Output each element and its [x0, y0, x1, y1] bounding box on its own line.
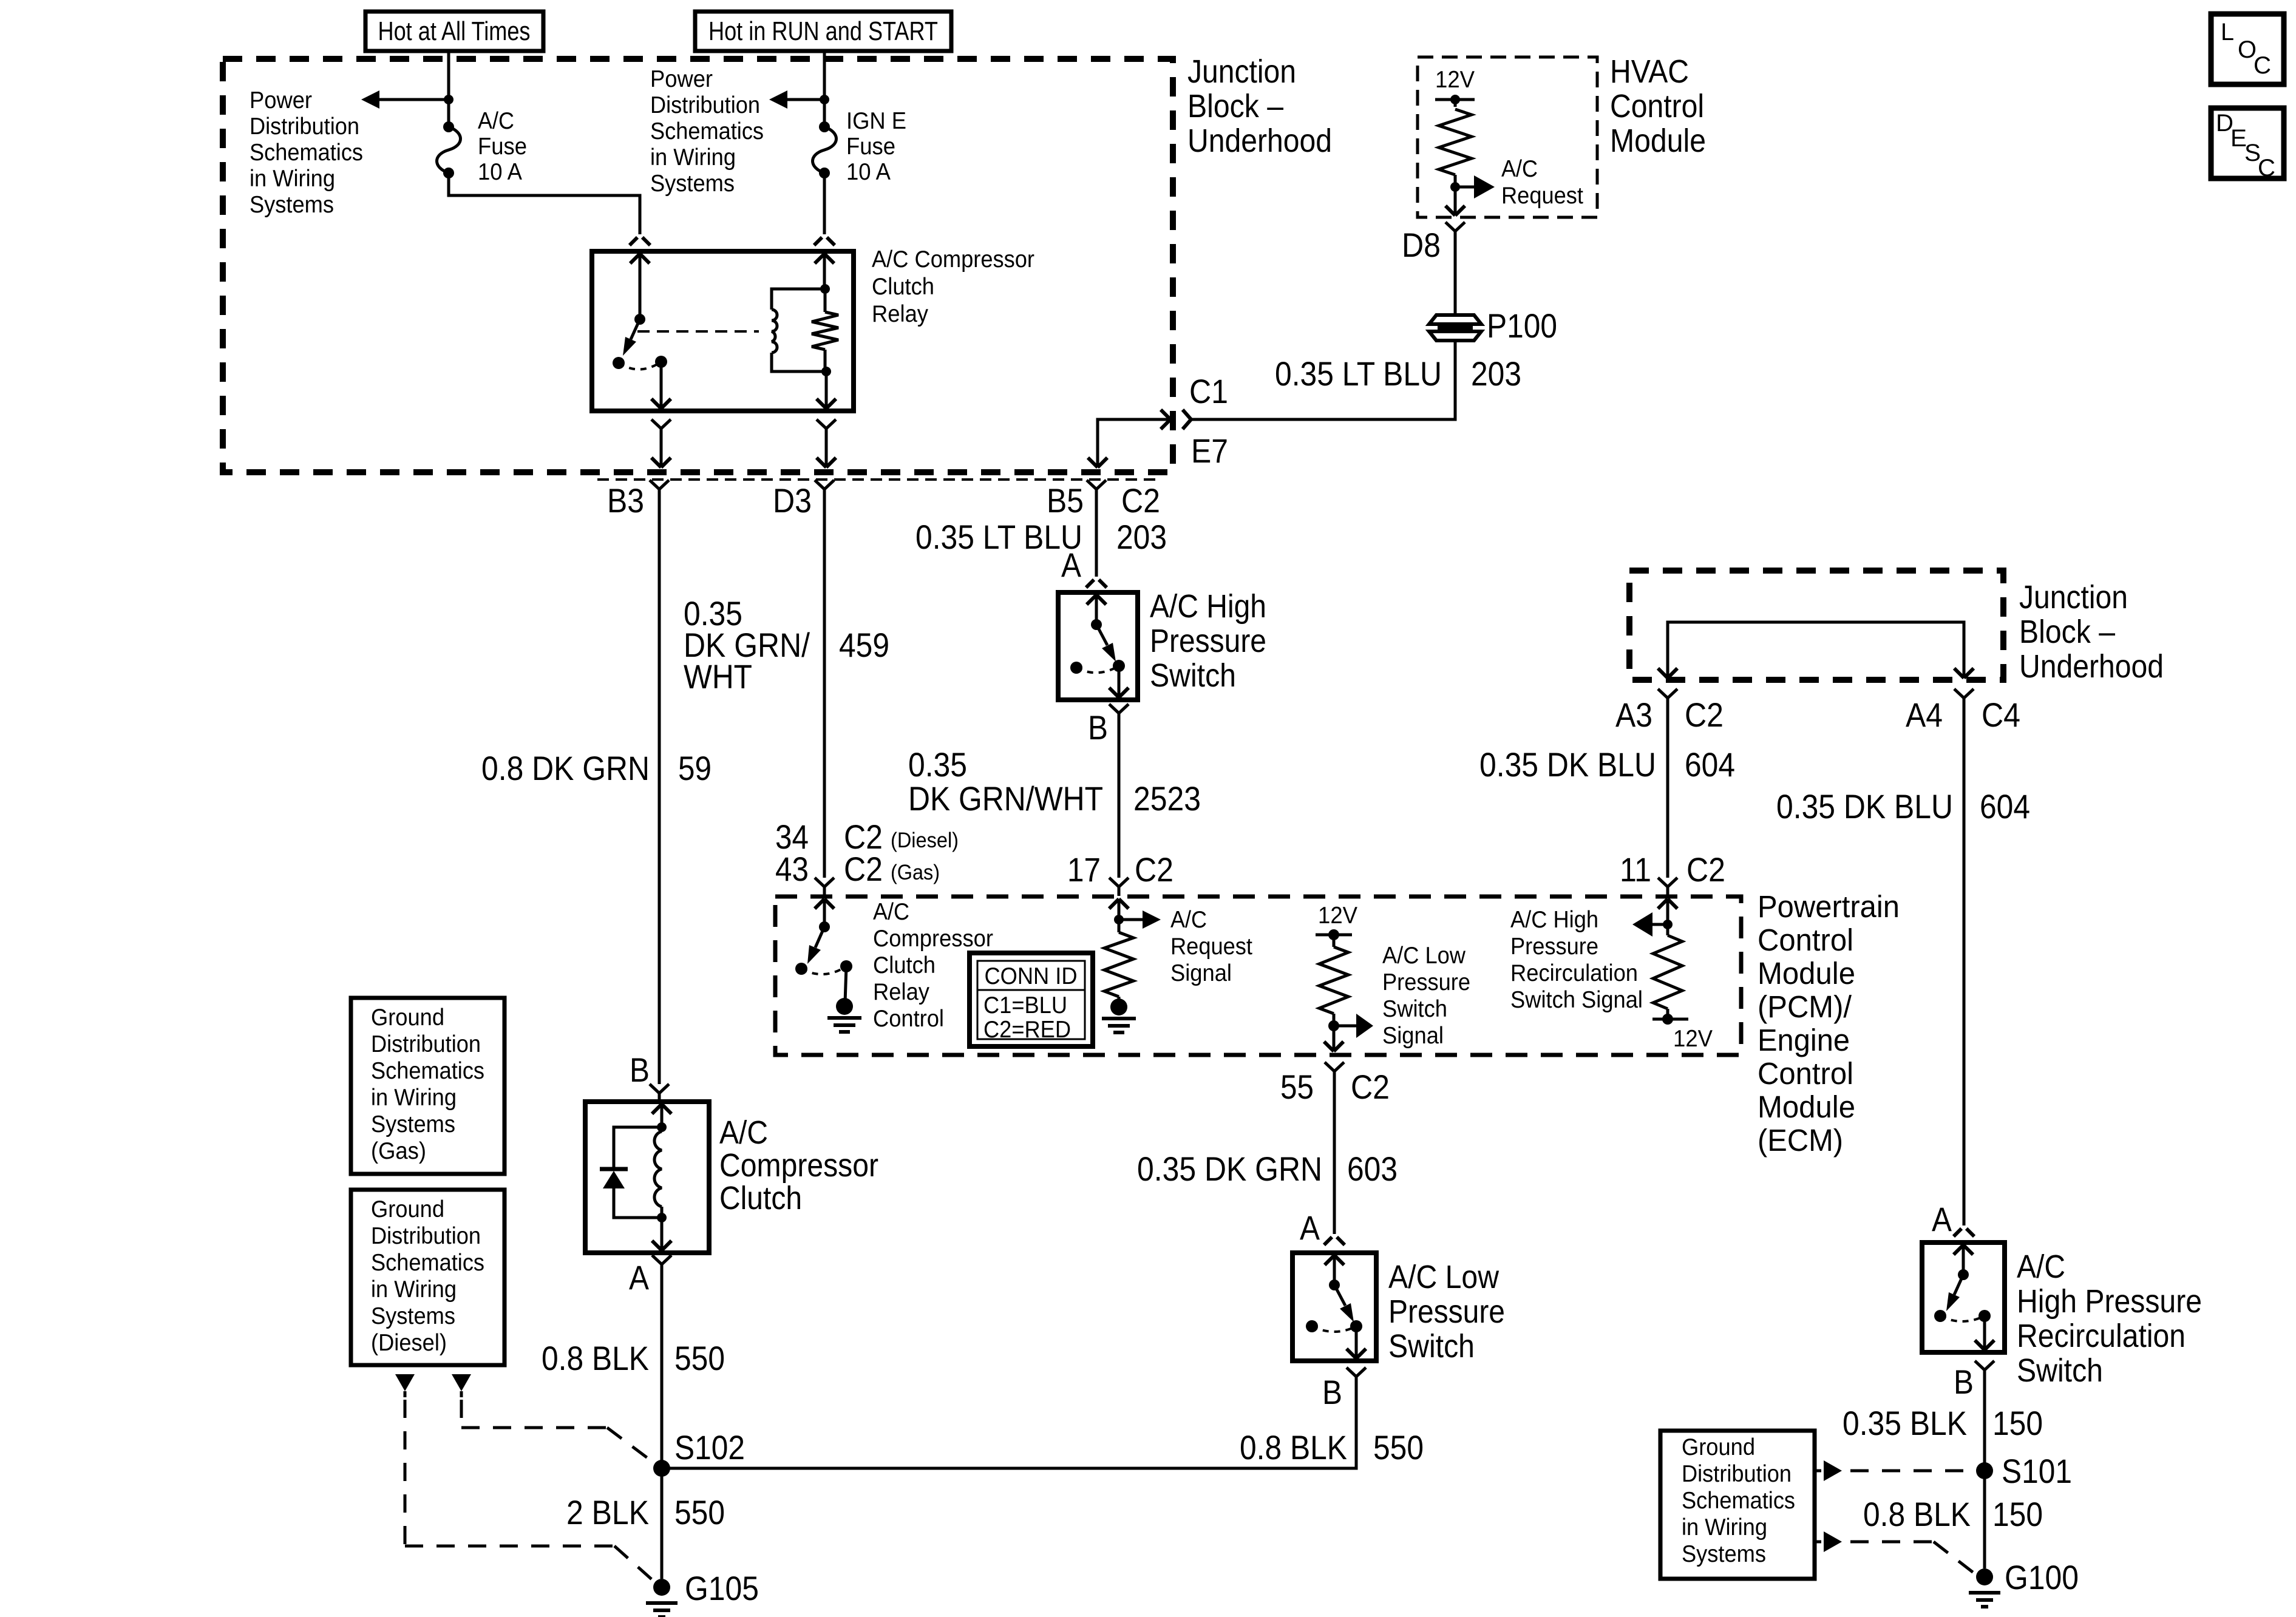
svg-text:Control: Control	[1758, 1056, 1853, 1091]
header box: Hot at All Times	[365, 12, 543, 51]
svg-text:Block –: Block –	[2019, 614, 2115, 650]
svg-text:550: 550	[674, 1493, 725, 1531]
label: circuit number 2523	[1133, 779, 1201, 818]
label: circuit number 150 (lower)	[1992, 1495, 2043, 1533]
diode: clutch suppression diode	[600, 1127, 662, 1218]
switch: recirc switch armature	[1934, 1269, 1991, 1322]
arrow: A/C High Pressure Recirculation Switch Signal (left)	[1632, 912, 1668, 937]
svg-text:A/C: A/C	[873, 899, 909, 925]
svg-text:603: 603	[1347, 1150, 1398, 1188]
label: pin C2 at 11	[1686, 850, 1725, 889]
label: pin C2 (diesel row)	[844, 818, 883, 856]
resistor: relay coil suppression resistor	[812, 289, 838, 371]
switch: HP switch armature	[1070, 619, 1125, 674]
label: pin A (compressor clutch)	[629, 1258, 650, 1297]
svg-text:C2: C2	[1686, 850, 1725, 889]
svg-text:10 A: 10 A	[478, 159, 522, 185]
svg-text:Pressure: Pressure	[1382, 969, 1470, 995]
pin arrow: relay pin 30 (top-left, up)	[630, 254, 650, 319]
svg-text:Schematics: Schematics	[250, 140, 363, 166]
connector: inline male at HP switch pin A	[1086, 580, 1107, 588]
label: circuit 0.8 DK GRN	[481, 749, 650, 787]
connector line: junction block bulkhead (thin dashed)	[597, 478, 1160, 481]
label: circuit number 604 (A3)	[1685, 745, 1735, 784]
svg-text:C: C	[2258, 155, 2275, 181]
wire: A3 to PCM pin 11	[1666, 707, 1669, 878]
svg-text:Pressure: Pressure	[1388, 1293, 1505, 1330]
supply: PCM 12V rail (low pressure sense)	[1316, 903, 1357, 947]
dashed link: ground reference to S102	[461, 1400, 656, 1464]
wire: recirc switch B to S101 to G100	[1983, 1379, 1986, 1568]
wire: relay coil top bus	[772, 284, 830, 310]
svg-text:B3: B3	[607, 481, 644, 520]
svg-text:Junction: Junction	[2019, 579, 2128, 615]
label: circuit 0.35 DK GRN	[1137, 1150, 1322, 1188]
svg-text:HVAC: HVAC	[1610, 53, 1689, 90]
label: pin A (recirc switch)	[1932, 1200, 1952, 1238]
dashed link: ground reference to S101	[1850, 1470, 1974, 1473]
svg-text:Hot in RUN and START: Hot in RUN and START	[708, 16, 938, 46]
svg-text:Distribution: Distribution	[1682, 1461, 1792, 1487]
node: low pressure signal tap	[1328, 1014, 1339, 1031]
reference box: Ground Distribution Schematics in Wiring Systems (Diesel)	[351, 1190, 504, 1365]
pin arrow: relay pin 87 (bottom-left, down)	[651, 362, 671, 408]
svg-text:Switch Signal: Switch Signal	[1510, 987, 1643, 1013]
supply: PCM 12V rail (recirc sense)	[1652, 1014, 1713, 1052]
svg-text:B: B	[630, 1051, 650, 1089]
svg-text:Hot at All Times: Hot at All Times	[378, 16, 531, 46]
label: pin 17	[1067, 850, 1101, 889]
svg-text:C2: C2	[1351, 1068, 1390, 1106]
svg-text:0.35: 0.35	[908, 745, 967, 784]
svg-text:Relay: Relay	[873, 979, 929, 1005]
svg-text:Systems: Systems	[371, 1111, 455, 1137]
svg-text:Recirculation: Recirculation	[2017, 1318, 2186, 1354]
svg-text:Module: Module	[1758, 956, 1855, 991]
fuse: A/C Fuse 10 A	[437, 121, 461, 178]
label: pin D8	[1402, 226, 1441, 264]
svg-text:Schematics: Schematics	[1682, 1488, 1795, 1514]
ground: G100	[1969, 1568, 2000, 1607]
svg-text:Schematics: Schematics	[371, 1058, 484, 1084]
label: G100	[2005, 1558, 2079, 1596]
svg-text:604: 604	[1685, 745, 1735, 784]
label: pin 11	[1620, 850, 1651, 889]
svg-text:59: 59	[678, 749, 712, 787]
svg-text:C2: C2	[1685, 696, 1724, 734]
label: pin B3	[607, 481, 644, 520]
label: (Gas)	[891, 861, 940, 884]
label: Junction Block - Underhood (right)	[2019, 579, 2164, 685]
module: HVAC Control Module dashed box	[1418, 57, 1597, 217]
label: A/C Request Signal	[1170, 907, 1252, 986]
label: S102	[674, 1428, 745, 1466]
svg-text:Switch: Switch	[1382, 996, 1447, 1022]
svg-text:C: C	[2254, 52, 2271, 79]
connector: female below relay pin 85	[817, 419, 836, 467]
label: circuit 0.35 DK BLU (A3)	[1479, 745, 1656, 784]
resistor: PCM pin 17 pull-down	[1104, 920, 1133, 1003]
svg-text:0.8 BLK: 0.8 BLK	[1240, 1428, 1347, 1466]
svg-text:Power: Power	[650, 66, 713, 92]
arrow: ground reference tap (to G105)	[395, 1374, 415, 1397]
connector: female below recirc switch pin B	[1975, 1361, 1994, 1379]
pin arrow: PCM pin 55 (down)	[1324, 1026, 1343, 1051]
svg-text:in Wiring: in Wiring	[250, 166, 335, 192]
label: G105	[685, 1569, 759, 1607]
label: A/C High Pressure Recirculation Switch	[2017, 1249, 2202, 1389]
reference box: Ground Distribution Schematics in Wiring Systems (right)	[1660, 1431, 1815, 1579]
label: pin B5	[1047, 481, 1084, 520]
svg-text:550: 550	[674, 1339, 725, 1377]
grommet: P100 pass-through	[1429, 315, 1481, 341]
connector: female below relay pin 87	[651, 419, 671, 467]
label: pin B (compressor clutch)	[630, 1051, 650, 1089]
svg-text:Power: Power	[250, 87, 312, 114]
node: A/C request signal tap	[1114, 915, 1124, 924]
svg-text:203: 203	[1471, 354, 1521, 393]
svg-text:Underhood: Underhood	[2019, 648, 2164, 685]
svg-text:C1=BLU: C1=BLU	[983, 992, 1067, 1019]
node: HVAC A/C request tap	[1450, 175, 1460, 192]
label: P100	[1487, 307, 1557, 345]
dashed link: relay coil actuates switch	[637, 330, 759, 333]
arrow: ground reference tap (to G100)	[1815, 1531, 1842, 1552]
svg-text:150: 150	[1992, 1404, 2043, 1442]
svg-text:A/C Low: A/C Low	[1388, 1259, 1500, 1295]
svg-text:Recirculation: Recirculation	[1510, 960, 1638, 986]
pin arrow: compressor clutch pin B (up)	[652, 1104, 671, 1127]
ground: PCM internal ground (pin 43 driver)	[827, 998, 861, 1032]
svg-text:Signal: Signal	[1170, 960, 1232, 986]
svg-text:in Wiring: in Wiring	[1682, 1514, 1767, 1541]
svg-text:A: A	[1932, 1200, 1952, 1238]
label: pin C2 at B5	[1121, 481, 1160, 520]
svg-text:Schematics: Schematics	[371, 1250, 484, 1276]
svg-text:E7: E7	[1191, 432, 1228, 470]
reference box: Ground Distribution Schematics in Wiring Systems (Gas)	[351, 998, 504, 1174]
label: pin C1	[1189, 372, 1228, 410]
svg-text:Control: Control	[873, 1006, 944, 1032]
pin arrow: low pressure switch pin B (down)	[1347, 1326, 1366, 1358]
connector: female above compressor clutch	[650, 1084, 669, 1102]
connector: female below PCM pin 55	[1325, 1062, 1344, 1080]
label: circuit 0.35 LT BLU (B5)	[915, 518, 1082, 556]
relay: A/C Compressor Clutch Relay box	[592, 251, 854, 411]
pin arrow: relay pin 85 (bottom-right, down)	[817, 371, 836, 408]
connector: female below low pressure switch pin B	[1347, 1368, 1366, 1386]
wire: A4 to A/C high pressure recirculation switch	[1963, 707, 1966, 1225]
wire: battery feed from Hot at All Times box to A/C fuse	[447, 51, 450, 127]
junction block - underhood dashed enclosure (left)	[223, 59, 1173, 472]
label: Junction Block - Underhood (left)	[1187, 53, 1332, 159]
svg-text:A: A	[629, 1258, 650, 1297]
switch box: A/C High Pressure Switch	[1058, 592, 1138, 700]
label: Power Distribution Schematics in Wiring Systems (right)	[650, 66, 764, 197]
wire: HP switch B to PCM pin 17	[1118, 722, 1121, 878]
node: splice to power distribution (right)	[820, 95, 829, 104]
wire: A/C fuse output to relay pin (left)	[449, 173, 640, 234]
svg-text:Block –: Block –	[1187, 88, 1283, 124]
label: pin A (low pressure switch)	[1300, 1209, 1320, 1247]
svg-text:A3: A3	[1615, 696, 1652, 734]
connector: female below compressor clutch pin A	[652, 1255, 671, 1273]
label: circuit 0.35 DK BLU (A4)	[1776, 787, 1953, 825]
label: Power Distribution Schematics in Wiring Systems (left)	[250, 87, 363, 218]
svg-text:Distribution: Distribution	[650, 92, 760, 118]
pin arrow: recirc switch pin B (down)	[1975, 1316, 1994, 1350]
label: circuit number 550 (low pressure)	[1373, 1428, 1424, 1466]
svg-text:A/C: A/C	[478, 108, 514, 134]
svg-text:in Wiring: in Wiring	[650, 144, 736, 171]
svg-text:604: 604	[1980, 787, 2030, 825]
svg-text:Fuse: Fuse	[478, 134, 527, 160]
svg-text:Compressor: Compressor	[719, 1147, 878, 1184]
svg-text:0.35 BLK: 0.35 BLK	[1843, 1404, 1967, 1442]
pin arrow: relay pin 86 (top-right, up)	[815, 254, 834, 289]
label: pin 34	[775, 818, 809, 856]
svg-text:Clutch: Clutch	[872, 274, 934, 300]
svg-text:Systems: Systems	[371, 1303, 455, 1329]
label: circuit number 59	[678, 749, 712, 787]
svg-text:Distribution: Distribution	[371, 1031, 481, 1057]
svg-text:A/C High: A/C High	[1150, 588, 1266, 625]
node: high pressure recirc signal tap	[1663, 920, 1673, 929]
label: pin A (high pressure switch)	[1061, 546, 1082, 584]
svg-text:0.35 LT BLU: 0.35 LT BLU	[915, 518, 1082, 556]
svg-text:459: 459	[839, 626, 889, 664]
svg-text:Systems: Systems	[1682, 1541, 1766, 1567]
svg-text:C2: C2	[1135, 850, 1173, 889]
node: clutch coil bottom	[657, 1213, 667, 1222]
label: pin 55	[1280, 1068, 1314, 1106]
arrow: A/C Request Signal (right)	[1119, 910, 1161, 929]
label: circuit number 550 (clutch)	[674, 1339, 725, 1377]
label: A/C High Pressure Recirculation Switch Signal	[1510, 907, 1643, 1013]
svg-text:G105: G105	[685, 1569, 759, 1607]
svg-text:2523: 2523	[1133, 779, 1201, 818]
svg-text:A/C: A/C	[2017, 1249, 2065, 1285]
ground: G105	[646, 1579, 678, 1617]
svg-text:43: 43	[775, 850, 809, 888]
pin arrow: compressor clutch pin A (down)	[652, 1218, 671, 1250]
node: clutch coil top	[657, 1122, 667, 1132]
wire: P100 to junction block pin C1	[1191, 341, 1455, 419]
label: circuit 0.35 BLK	[1843, 1404, 1967, 1442]
resistor: PCM low pressure sense pull-up	[1319, 947, 1348, 1014]
svg-text:Systems: Systems	[650, 171, 735, 197]
svg-text:DK GRN/WHT: DK GRN/WHT	[908, 779, 1103, 818]
connector: female below HVAC pin D8	[1445, 222, 1465, 240]
wire: PCM 55 to low pressure switch pin A	[1333, 1080, 1336, 1234]
wire: ignition feed from Hot in RUN and START box to IGN E fuse	[823, 51, 826, 127]
arrow: to Power Distribution Schematics (left)	[361, 90, 449, 109]
svg-text:0.8 BLK: 0.8 BLK	[542, 1339, 649, 1377]
svg-text:10 A: 10 A	[846, 159, 891, 185]
label: circuit number 459	[839, 626, 889, 664]
arrow: ground reference tap (to S102)	[452, 1374, 471, 1397]
svg-text:D8: D8	[1402, 226, 1441, 264]
label: S101	[2002, 1452, 2072, 1490]
node: splice S101	[1976, 1462, 1993, 1479]
label: circuit number 604 (A4)	[1980, 787, 2030, 825]
connector: terminal B5	[1087, 480, 1106, 498]
label: A/C Compressor Clutch Relay Control	[873, 899, 993, 1032]
label: circuit number 603	[1347, 1150, 1398, 1188]
svg-text:0.35 DK BLU: 0.35 DK BLU	[1479, 745, 1656, 784]
svg-text:0.8 DK GRN: 0.8 DK GRN	[481, 749, 650, 787]
wire: relay coil bottom bus	[772, 353, 831, 376]
pin arrow: PCM pin 17 (up)	[1109, 899, 1129, 920]
supply: 12V rail in HVAC module	[1435, 67, 1475, 107]
svg-text:12V: 12V	[1318, 903, 1357, 929]
svg-text:B: B	[1322, 1373, 1342, 1411]
module: Powertrain Control Module dashed box	[775, 897, 1741, 1055]
svg-text:A/C Low: A/C Low	[1382, 943, 1466, 969]
connector: male at junction block C1	[1183, 410, 1191, 429]
svg-text:Control: Control	[1758, 923, 1853, 957]
svg-text:in Wiring: in Wiring	[371, 1276, 457, 1303]
label: pin C2 at 17	[1135, 850, 1173, 889]
label: circuit number 550 (ground leg)	[674, 1493, 725, 1531]
svg-text:Module: Module	[1758, 1090, 1855, 1124]
connector: female at PCM pin 11	[1658, 878, 1677, 896]
svg-text:Ground: Ground	[1682, 1434, 1755, 1460]
svg-text:C4: C4	[1982, 696, 2020, 734]
label: pin 43	[775, 850, 809, 888]
svg-text:G100: G100	[2005, 1558, 2079, 1596]
label: A/C High Pressure Switch	[1150, 588, 1266, 694]
pin arrow: HVAC pin D8 (down)	[1445, 187, 1465, 215]
connector: female below HP switch pin B	[1109, 704, 1129, 722]
svg-text:Relay: Relay	[872, 301, 928, 327]
label: A/C Request	[1501, 156, 1583, 209]
svg-text:IGN E: IGN E	[846, 108, 906, 134]
wire: junction block internal bus A3-A4	[1658, 622, 1974, 678]
wire: compressor clutch A to S102	[661, 1273, 664, 1468]
svg-text:Junction: Junction	[1187, 53, 1296, 90]
label: circuit 0.35 LT BLU (HVAC feed)	[1275, 354, 1442, 393]
label: pin A3	[1615, 696, 1652, 734]
svg-text:A/C: A/C	[719, 1114, 768, 1151]
label: circuit number 150 (upper)	[1992, 1404, 2043, 1442]
svg-text:Clutch: Clutch	[719, 1180, 802, 1216]
svg-text:Powertrain: Powertrain	[1758, 889, 1900, 924]
svg-text:B: B	[1088, 708, 1108, 747]
svg-text:S101: S101	[2002, 1452, 2072, 1490]
connector: female at PCM pin 43	[815, 878, 834, 896]
svg-text:(Gas): (Gas)	[891, 861, 940, 884]
svg-text:Systems: Systems	[250, 192, 334, 218]
svg-text:P100: P100	[1487, 307, 1557, 345]
svg-text:in Wiring: in Wiring	[371, 1085, 457, 1111]
node: splice to power distribution (left)	[444, 95, 453, 104]
svg-text:2 BLK: 2 BLK	[566, 1493, 649, 1531]
label: (Diesel)	[891, 829, 959, 852]
wire: HVAC D8 to P100 grommet	[1454, 240, 1457, 314]
switch box: A/C Low Pressure Switch	[1292, 1253, 1376, 1361]
switch box: A/C High Pressure Recirculation Switch	[1922, 1242, 2005, 1352]
svg-text:0.8 BLK: 0.8 BLK	[1863, 1495, 1971, 1533]
pin arrow: HP switch pin A (up)	[1087, 595, 1106, 625]
connector: inline male at relay top-right pin	[814, 237, 835, 245]
svg-text:Switch: Switch	[1388, 1328, 1475, 1364]
svg-text:Pressure: Pressure	[1510, 934, 1598, 960]
switch: relay armature	[613, 314, 667, 370]
wire: S102 to G105	[661, 1468, 664, 1579]
label: C2=RED	[983, 1017, 1071, 1043]
label: circuit 0.35 (HP switch out)	[908, 745, 967, 784]
label: circuit 0.35 DK GRN/ WHT	[684, 594, 810, 696]
svg-text:A/C Compressor: A/C Compressor	[872, 246, 1034, 273]
svg-text:A: A	[1300, 1209, 1320, 1247]
svg-text:Switch: Switch	[1150, 657, 1236, 694]
connector: inline male at low pressure switch pin A	[1324, 1237, 1345, 1245]
component box: A/C Compressor Clutch	[585, 1102, 709, 1253]
table: CONN ID legend box	[970, 953, 1093, 1046]
svg-text:Control: Control	[1610, 88, 1704, 124]
label: pin E7	[1191, 432, 1228, 470]
dashed link: ground reference to G105	[405, 1400, 654, 1582]
legend box: LOC	[2211, 14, 2284, 84]
connector: terminal B3	[650, 480, 669, 498]
label: HVAC Control Module	[1610, 53, 1706, 159]
label: CONN ID	[985, 963, 1078, 989]
label: IGN E Fuse 10 A	[846, 108, 906, 185]
arrow: ground reference tap (to S101)	[1815, 1460, 1842, 1481]
svg-text:C2: C2	[844, 850, 883, 888]
label: pin C2 at 55	[1351, 1068, 1390, 1106]
coil: relay coil winding	[772, 310, 777, 353]
label: A/C Compressor Clutch	[719, 1114, 878, 1216]
pin arrow: PCM pin 43 (up)	[815, 899, 834, 927]
pin arrow: recirc switch pin A (up)	[1954, 1245, 1973, 1275]
label: A/C Compressor Clutch Relay	[872, 246, 1034, 327]
wire: low pressure switch B to S102	[662, 1386, 1356, 1468]
svg-text:Compressor: Compressor	[873, 926, 993, 952]
svg-text:(PCM)/: (PCM)/	[1758, 989, 1852, 1024]
svg-text:Underhood: Underhood	[1187, 123, 1332, 159]
fuse: IGN E Fuse 10 A	[813, 121, 837, 178]
label: circuit number 203 (B5)	[1116, 518, 1167, 556]
svg-text:Fuse: Fuse	[846, 134, 895, 160]
svg-text:A/C High: A/C High	[1510, 907, 1598, 933]
svg-text:C2=RED: C2=RED	[983, 1017, 1071, 1043]
svg-text:Clutch: Clutch	[873, 952, 936, 978]
wire: B5 to A/C High Pressure Switch pin A	[1095, 498, 1098, 577]
svg-text:C2: C2	[1121, 481, 1160, 520]
svg-text:Request: Request	[1170, 934, 1252, 960]
svg-text:CONN ID: CONN ID	[985, 963, 1078, 989]
legend box: DESC	[2211, 108, 2284, 181]
svg-text:Ground: Ground	[371, 1196, 444, 1222]
pin arrow: HP switch pin B (down)	[1109, 666, 1129, 697]
svg-text:12V: 12V	[1673, 1026, 1713, 1052]
connector: terminal D3	[815, 480, 834, 498]
svg-text:Engine: Engine	[1758, 1023, 1850, 1057]
arrow: to Power Distribution Schematics (right)	[769, 90, 824, 109]
svg-text:Signal: Signal	[1382, 1023, 1444, 1049]
svg-text:High Pressure: High Pressure	[2017, 1283, 2202, 1320]
svg-text:S102: S102	[674, 1428, 745, 1466]
svg-text:(Gas): (Gas)	[371, 1138, 426, 1164]
svg-text:(Diesel): (Diesel)	[371, 1330, 447, 1356]
label: pin C2 (gas row)	[844, 850, 883, 888]
svg-text:150: 150	[1992, 1495, 2043, 1533]
wire: IGN E fuse output to relay pin (right)	[823, 178, 826, 234]
svg-text:B5: B5	[1047, 481, 1084, 520]
label: Powertrain Control Module (PCM)/Engine Control Module (ECM)	[1758, 889, 1900, 1158]
